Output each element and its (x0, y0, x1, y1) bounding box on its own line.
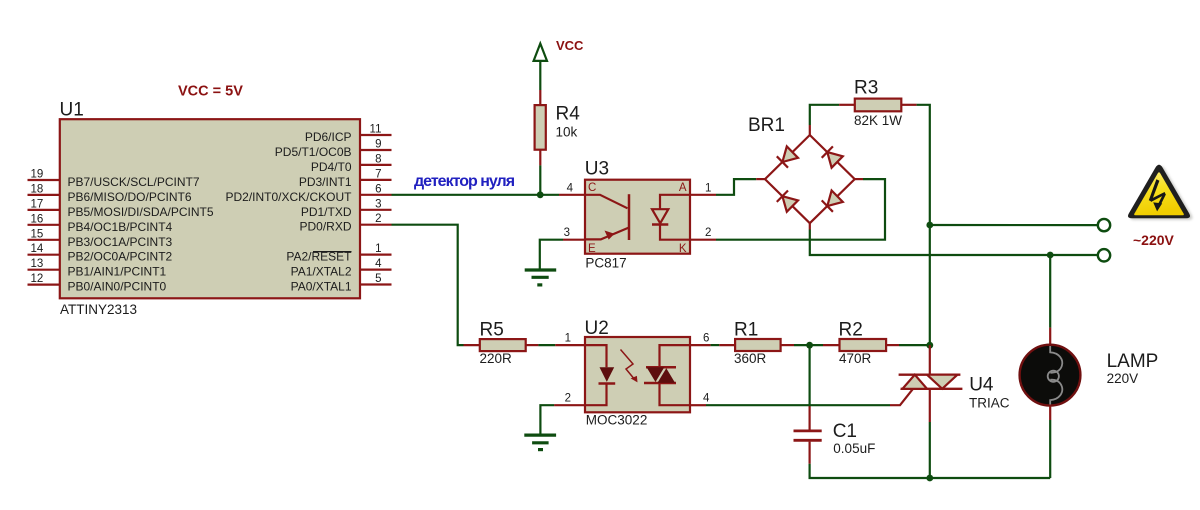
svg-text:PD4/T0: PD4/T0 (311, 160, 352, 174)
resistor R5 (464, 339, 539, 351)
U3 pin 3 stub (563, 239, 585, 241)
U3 reference label (585, 159, 609, 180)
svg-text:PB7/USCK/SCL/PCINT7: PB7/USCK/SCL/PCINT7 (68, 175, 200, 189)
U3 pin 3 number (564, 227, 570, 239)
svg-text:U3: U3 (585, 159, 609, 180)
svg-text:17: 17 (31, 198, 44, 210)
net label детектор нуля (414, 173, 515, 190)
svg-text:PC817: PC817 (585, 256, 626, 271)
U2 value label MOC3022 (586, 413, 648, 428)
svg-text:PB3/OC1A/PCINT3: PB3/OC1A/PCINT3 (68, 235, 173, 249)
R3 reference label (854, 78, 878, 99)
svg-text:MOC3022: MOC3022 (586, 413, 648, 428)
svg-text:220V: 220V (1107, 371, 1139, 386)
svg-text:4: 4 (703, 393, 710, 405)
junction node triac top (926, 342, 933, 349)
R2 reference label (839, 319, 863, 340)
U3 pin 1 stub (690, 194, 716, 196)
svg-text:R5: R5 (480, 319, 504, 340)
bridge rectifier BR1 (765, 135, 855, 223)
svg-text:U2: U2 (585, 318, 609, 339)
svg-text:LAMP: LAMP (1107, 351, 1159, 372)
svg-text:2: 2 (565, 393, 571, 405)
svg-text:R4: R4 (556, 104, 581, 125)
R5 value label 220R (480, 351, 513, 366)
svg-text:U1: U1 (60, 99, 84, 120)
resistor R3 (839, 99, 917, 112)
svg-text:C1: C1 (833, 421, 857, 442)
svg-text:PB2/OC0A/PCINT2: PB2/OC0A/PCINT2 (68, 250, 173, 264)
svg-text:TRIAC: TRIAC (969, 396, 1010, 411)
BR1 diode bottom-right (822, 191, 843, 212)
R4 reference label (556, 104, 581, 125)
power label VCC = 5V (178, 84, 243, 100)
svg-text:82K 1W: 82K 1W (854, 113, 902, 128)
svg-text:5: 5 (375, 273, 381, 285)
U1 left pin numbers (31, 169, 44, 286)
BR1 diode bottom-left (777, 191, 798, 212)
BR1 left stub (756, 178, 765, 180)
U2 LED triangle (600, 367, 615, 382)
U2 pin 6 stub (690, 344, 711, 346)
optocoupler U3 body PC817 (585, 180, 690, 254)
wire gate long (706, 404, 890, 406)
U2 pin 2 stub (554, 404, 585, 406)
R5 reference label (480, 319, 504, 340)
R2 value label 470R (839, 351, 872, 366)
svg-text:13: 13 (31, 258, 44, 270)
BR1 right stub (855, 178, 863, 180)
U3 pin 2 number (705, 227, 711, 239)
U3 emitter arrow head (605, 231, 615, 240)
svg-text:8: 8 (375, 153, 381, 165)
svg-text:4: 4 (375, 258, 382, 270)
U3 pin 4 number (567, 182, 574, 194)
svg-text:U4: U4 (969, 375, 994, 396)
wire C1 to bottom rail (810, 464, 1051, 478)
wire U1 pin2 to R5 (392, 225, 464, 345)
wire U3 pin3 to ground (540, 240, 563, 270)
wire U2 pin2 to ground (540, 405, 554, 435)
svg-text:PB6/MISO/DO/PCINT6: PB6/MISO/DO/PCINT6 (68, 190, 192, 204)
U1 value label ATTINY2313 (60, 302, 137, 317)
U4 value label TRIAC (969, 396, 1010, 411)
wire C1 branch down (808, 345, 810, 405)
svg-text:11: 11 (370, 124, 382, 136)
U2 reference label (585, 318, 609, 339)
svg-text:9: 9 (375, 139, 381, 151)
svg-text:19: 19 (31, 169, 44, 181)
wire R2 to triac node (899, 344, 930, 346)
svg-text:6: 6 (703, 333, 709, 345)
junction node AC line1 (926, 222, 933, 229)
wire R5 to U2 pin1 (538, 344, 555, 346)
power symbol VCC (534, 44, 547, 91)
svg-text:R1: R1 (734, 319, 758, 340)
LAMP reference label (1107, 351, 1159, 372)
lamp LAMP (1020, 345, 1081, 406)
svg-text:18: 18 (31, 183, 44, 195)
terminal T1 (1098, 219, 1110, 231)
svg-text:1: 1 (375, 243, 381, 255)
svg-text:PD6/ICP: PD6/ICP (305, 130, 352, 144)
U2 diac (644, 345, 690, 405)
svg-text:VCC = 5V: VCC = 5V (178, 84, 243, 100)
svg-text:470R: 470R (839, 351, 872, 366)
wire R3 right down to AC node (917, 105, 930, 345)
svg-text:R3: R3 (854, 78, 878, 99)
svg-text:~220V: ~220V (1133, 232, 1175, 248)
U3 pin 4 stub (559, 194, 585, 196)
ground below U2 (524, 435, 556, 450)
svg-text:PA1/XTAL2: PA1/XTAL2 (291, 265, 352, 279)
svg-text:16: 16 (31, 213, 44, 225)
svg-text:3: 3 (564, 227, 570, 239)
U3 pin 1 number (705, 182, 711, 194)
svg-text:15: 15 (31, 228, 44, 240)
LAMP value label 220V (1107, 371, 1139, 386)
U1 right pin names PD6..PA0 (225, 130, 352, 294)
AC source label ~220V (1133, 232, 1175, 248)
wire BR1 bottom to AC line2 (810, 230, 1098, 256)
resistor R2 (823, 339, 899, 351)
U1 right pin numbers (370, 124, 383, 286)
svg-text:12: 12 (31, 273, 44, 285)
svg-text:14: 14 (31, 243, 44, 255)
wire R1 to junction (794, 344, 823, 346)
U2 pin 6 number (703, 333, 709, 345)
R3 value label 82K 1W (854, 113, 902, 128)
svg-text:A: A (679, 182, 687, 194)
U1 left pin names PB7-PB0 (68, 175, 214, 294)
svg-text:7: 7 (375, 168, 381, 180)
svg-text:PB0/AIN0/PCINT0: PB0/AIN0/PCINT0 (68, 280, 167, 294)
svg-text:PA0/XTAL1: PA0/XTAL1 (291, 280, 352, 294)
wire U2 pin6 to R1 (711, 344, 720, 346)
svg-text:E: E (588, 243, 596, 255)
svg-text:PD1/TXD: PD1/TXD (301, 205, 352, 219)
svg-text:1: 1 (565, 333, 571, 345)
svg-text:2: 2 (375, 213, 381, 225)
svg-text:R2: R2 (839, 319, 863, 340)
U2 pin 4 number (703, 393, 710, 405)
resistor R4 (535, 90, 546, 165)
svg-text:PD5/T1/OC0B: PD5/T1/OC0B (275, 145, 352, 159)
U4 reference label (969, 375, 994, 396)
U3 LED diode (652, 195, 690, 240)
terminal T2 (1098, 249, 1110, 261)
svg-text:360R: 360R (734, 351, 767, 366)
U3 phototransistor (585, 194, 629, 240)
U2 light arrow (621, 350, 638, 383)
U1 reference label (60, 99, 84, 120)
wire U3 pin2 to BR1 right (716, 179, 885, 240)
R4 value label 10k (556, 124, 578, 139)
wire lamp bottom to rail (1049, 420, 1051, 478)
U2 LED diode (585, 345, 615, 405)
U2 pin 1 stub (555, 344, 585, 346)
C1 value label 0.05uF (833, 441, 875, 456)
capacitor C1 (794, 405, 822, 464)
U1 left pins 19-12 (28, 180, 60, 285)
BR1 top stub (809, 125, 811, 135)
svg-text:PD3/INT1: PD3/INT1 (299, 175, 352, 189)
svg-text:0.05uF: 0.05uF (833, 441, 875, 456)
U1 PA2/RESET overline (313, 251, 352, 253)
BR1 bottom stub (809, 223, 811, 229)
IC U1 body ATTINY2313 (60, 119, 360, 298)
wire U1 pin6 to U3 pin4 (392, 194, 560, 196)
wire U2 pin4 / triac gate (690, 404, 706, 406)
R1 reference label (734, 319, 758, 340)
BR1 diode top-right (822, 146, 843, 167)
junction node R1/R2/C1 (806, 342, 813, 349)
wire lamp top (1049, 255, 1051, 328)
U3 pin 2 stub (690, 239, 716, 241)
lamp top stub (1049, 328, 1051, 345)
svg-text:4: 4 (567, 182, 574, 194)
wire AC line1 to terminal (930, 224, 1098, 226)
C1 reference label (833, 421, 857, 442)
lamp bottom stub (1049, 406, 1051, 421)
svg-text:PB1/AIN1/PCINT1: PB1/AIN1/PCINT1 (68, 265, 167, 279)
svg-text:3: 3 (375, 198, 381, 210)
U2 pin 2 number (565, 393, 571, 405)
svg-text:6: 6 (375, 183, 381, 195)
wire triac bottom to rail (929, 422, 931, 478)
svg-text:PD2/INT0/XCK/CKOUT: PD2/INT0/XCK/CKOUT (225, 190, 352, 204)
junction node at R4/detector wire (537, 191, 544, 198)
svg-text:K: K (679, 243, 687, 255)
hazard lightning bolt (1149, 179, 1166, 211)
U3 value label PC817 (585, 256, 626, 271)
ground below U3 (525, 270, 557, 285)
R1 value label 360R (734, 351, 767, 366)
resistor R1 (719, 339, 794, 351)
svg-text:220R: 220R (480, 351, 513, 366)
svg-text:10k: 10k (556, 124, 578, 139)
wire R4 bottom to node (539, 165, 541, 194)
svg-text:PD0/RXD: PD0/RXD (299, 220, 351, 234)
BR1 diode top-left (777, 146, 798, 167)
U1 right pins 11,9,8,7,6,3,2,1,4,5 (360, 135, 392, 285)
U2 pin 1 number (565, 333, 571, 345)
svg-text:1: 1 (705, 182, 711, 194)
VCC text label (556, 38, 584, 53)
junction node lamp top (1047, 252, 1054, 259)
wire U3 pin1 to BR1 left (716, 179, 756, 195)
triac U4 (899, 345, 963, 422)
triac gate stub (890, 389, 913, 405)
svg-text:VCC: VCC (556, 38, 584, 53)
junction node bottom rail (926, 475, 933, 482)
svg-text:C: C (588, 182, 596, 194)
hazard warning sign (1128, 165, 1192, 220)
svg-text:2: 2 (705, 227, 711, 239)
BR1 reference label (748, 115, 785, 136)
svg-text:PB4/OC1B/PCINT4: PB4/OC1B/PCINT4 (68, 220, 173, 234)
U3 pin letters C E A K (588, 182, 687, 255)
optotriac U2 body MOC3022 (585, 337, 690, 412)
wire BR1 top to R3 (810, 105, 839, 125)
svg-text:детектор нуля: детектор нуля (414, 173, 515, 190)
svg-text:PB5/MOSI/DI/SDA/PCINT5: PB5/MOSI/DI/SDA/PCINT5 (68, 205, 214, 219)
svg-text:BR1: BR1 (748, 115, 785, 136)
svg-text:ATTINY2313: ATTINY2313 (60, 302, 137, 317)
